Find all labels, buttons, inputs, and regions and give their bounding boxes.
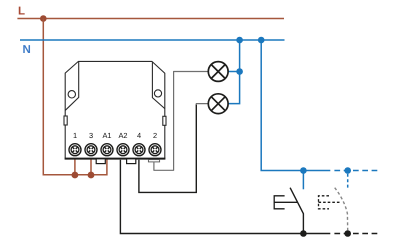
tab lower right [127, 159, 136, 164]
wire L drop to terminal bus [43, 19, 107, 175]
svg-text:2: 2 [153, 131, 157, 140]
svg-text:L: L [18, 6, 25, 18]
svg-text:N: N [23, 44, 31, 56]
screw terminal 3 [85, 144, 97, 156]
relay module body outline [65, 61, 165, 158]
wire terminal 4 to lamp E2 [139, 104, 196, 192]
junction dot at S2 on common [344, 230, 351, 237]
junction dot on L line [40, 15, 47, 22]
relay module bottom edge [65, 158, 166, 160]
wire terminal 2 to lamp E1 [154, 72, 208, 171]
wire stub to switch S1 [302, 171, 304, 190]
junction dot at S1 on common [300, 230, 307, 237]
terminal 2 foot tab [148, 160, 159, 162]
lamp E2 [208, 94, 228, 114]
wire lamp E1 to N [227, 71, 240, 73]
screw hole left [68, 91, 75, 98]
svg-text:A1: A1 [102, 131, 111, 140]
lamp E1 [208, 62, 228, 82]
tab lower left [96, 159, 105, 164]
wire N line [20, 39, 285, 41]
junction dot at switch S1 feed [300, 167, 307, 174]
wire lamp E2 entry segment [196, 104, 208, 105]
wire stub terminal 1 to bus [74, 159, 76, 175]
screw terminal 2 [149, 144, 161, 156]
junction dot on N line left [236, 37, 243, 44]
wire N drop to lamps [227, 40, 240, 104]
push-button S2 actuator (dashed) [319, 196, 342, 209]
junction dot at switch S2 feed [344, 167, 351, 174]
junction dot on N line right [258, 37, 265, 44]
wire L line [17, 18, 284, 20]
screw terminal 4 [133, 144, 145, 156]
wire stub terminal 3 to bus [90, 159, 92, 175]
push-button S2 contact blade (dashed) [335, 188, 348, 231]
junction dot under terminal 1 [72, 172, 79, 179]
push-button S1 contact blade [290, 188, 303, 234]
svg-text:4: 4 [137, 131, 141, 140]
svg-text:3: 3 [89, 131, 93, 140]
wire dashed stub to switch S2 [347, 174, 349, 190]
wire terminal A2 to buttons common [120, 160, 330, 234]
svg-text:A2: A2 [118, 131, 127, 140]
junction dot at lamp E1 [236, 68, 243, 75]
svg-text:1: 1 [73, 131, 77, 140]
clip right [163, 116, 166, 125]
screw hole right [154, 90, 161, 97]
screw terminal A1 [101, 144, 113, 156]
wire N drop to switches [261, 40, 330, 171]
mounting ear left [65, 62, 78, 110]
mounting ear right [152, 62, 164, 109]
screw terminal 1 [69, 144, 81, 156]
clip left [64, 116, 67, 125]
push-button S1 actuator [274, 196, 297, 209]
junction dot under terminal 3 [88, 172, 95, 179]
wire dashed common S1 to S2 [334, 233, 379, 235]
wire dashed N to switch S2 [334, 170, 379, 172]
screw terminal A2 [117, 144, 129, 156]
